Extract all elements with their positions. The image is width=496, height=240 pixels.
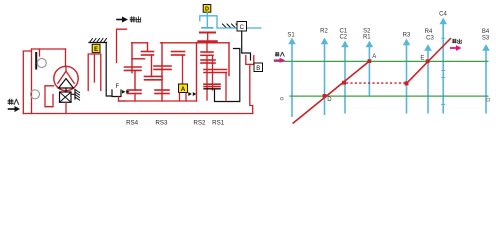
RS4 carrier bar [132,58,145,60]
wire: input riser far left [23,51,31,114]
dash start dot on lever 1 [342,81,346,85]
node line R2 [324,43,326,115]
clutch B label box [254,63,263,72]
RS2 sun stem [206,43,208,52]
brake D red plate [200,32,215,34]
clutch A label box [179,84,188,93]
input arrow [9,108,16,110]
svg-text:A: A [372,54,376,60]
RS1 black plate [204,88,220,90]
dash end dot [405,81,409,85]
svg-text:F: F [116,84,120,90]
brake D cyan plate [202,27,213,29]
svg-text:S1: S1 [287,32,295,38]
clutch A arrows [188,92,196,96]
svg-text:R2: R2 [320,29,328,35]
RS2 sun shaft down [206,55,208,100]
lower green line [290,95,489,97]
speed lever line 2 [407,38,452,83]
wire: RS2 right leg [228,43,230,76]
ticks on C4 [441,38,445,104]
wire: A red stub [180,93,187,101]
wire: mid rail [119,100,197,102]
output arrow [117,19,123,21]
RS2 lower mesh bars [201,59,215,61]
clutch C cyan line [217,27,261,29]
brake D cyan staple [200,16,217,28]
brake E label box [92,44,100,52]
RS2 carrier shaft [212,55,214,90]
ground hatch (right of converter) [75,90,80,101]
RS3 main shaft [161,43,163,101]
wire: down to torque converter [65,49,67,67]
node line R3 [406,44,408,114]
gear circle 2 (gray) [31,90,40,99]
wire: clutch box to ground [71,90,75,100]
svg-text:RS3: RS3 [155,119,168,126]
svg-text:D: D [327,97,332,103]
输入 input label [8,99,19,104]
brake D cyan stem [206,12,208,27]
svg-text:C1: C1 [339,28,347,34]
input arrow (magenta) [274,59,280,61]
svg-text:C: C [240,25,245,31]
wire: stub on box top [39,49,41,56]
clutch C ground hatch [223,24,241,28]
svg-text:RS4: RS4 [126,119,139,126]
clutch C label box [237,22,247,32]
one-way clutch F bracket [112,90,121,97]
RS4 left leg [131,43,133,73]
RS4 ring bars [125,66,142,68]
brake E ground hatch [89,42,107,44]
svg-text:C4: C4 [439,11,447,17]
wire: C black stem [242,31,251,60]
clutch B red cup [246,56,254,65]
node line C4 [442,23,444,114]
RS2 ring plate [199,40,217,42]
RS3 ring bars [154,65,171,67]
node D dot [323,94,327,98]
wire: RS4 stem to mid rail [134,94,136,102]
green line end markers [281,97,284,100]
torque converter turbine (red V) [58,67,74,84]
RS4 bottom plates [128,89,142,91]
black U bracket (RS1 drum) [215,49,240,102]
svg-text:E: E [420,55,424,61]
wire: D red stem [207,33,209,43]
gearset RS4 top staple [131,43,148,51]
speed lever line 1 [293,61,370,123]
wire: B stem down [250,64,253,113]
wire: box bottom to rail [65,102,67,113]
brake E clutch pack (red cup) [88,54,101,91]
wire: RS1 sun down [225,73,227,101]
svg-text:R3: R3 [403,33,411,39]
dashed red line [346,82,405,84]
wire: RS4-RS3 link vertical [151,55,153,76]
node A dot [368,59,372,63]
wire: output shaft corner [117,29,127,62]
svg-text:B4: B4 [482,29,490,35]
wire: F red hook to mid rail [119,97,126,101]
one-way clutch F arrows [122,90,130,94]
bridge mesh bars [145,75,163,77]
RS1 mesh bars [204,69,227,71]
wire: A clutch riser [182,55,184,84]
node line S2/R1 [368,46,370,96]
node E dot [426,59,430,63]
node line S1 [291,43,293,117]
wire: gear box top [32,48,66,50]
输入 input label (right) [275,52,284,57]
svg-text:E: E [94,47,98,53]
one-way clutch box with X [60,92,72,102]
输出 output label (right) [452,39,461,44]
RS4 mesh bars [142,51,154,53]
svg-text:C2: C2 [339,35,347,41]
svg-text:RS2: RS2 [193,119,206,126]
wire: bottom rail [23,113,252,115]
gearset RS3 / RS2 top plate [161,42,230,44]
svg-text:B: B [256,66,260,72]
svg-text:S2: S2 [363,28,371,34]
node line C1/C2 [344,46,346,114]
wire: F drum black vertical [106,43,112,97]
RS4 hub vertical [134,70,136,90]
svg-text:RS1: RS1 [212,119,225,126]
gear bar (black) [35,53,37,69]
torque converter stator triangle [59,79,74,88]
gear circle (gray) [37,59,46,68]
wire: triangle to one-way clutch [65,88,67,92]
svg-text:R4: R4 [425,29,433,35]
RS3 mesh bars [172,51,185,53]
svg-text:R1: R1 [363,35,371,41]
zero speed line (upper green) [274,60,489,62]
RS2 mesh bars [201,51,213,53]
svg-text:S3: S3 [482,35,490,41]
svg-text:C3: C3 [426,35,434,41]
RS1 lower plates [204,83,220,85]
brake D label box [203,5,211,13]
output arrow (magenta) [450,47,457,49]
wire: RS2 left leg [196,43,198,101]
svg-text:A: A [181,87,186,93]
wire: left vertical shaft [31,49,33,114]
torque converter circle [54,66,78,90]
node line R4/C3 [427,50,429,114]
node line B4/S3 [485,50,487,114]
输出 output label [130,17,140,22]
wire: pump drive bracket [45,86,54,107]
RS3 bottom plates [155,89,169,91]
